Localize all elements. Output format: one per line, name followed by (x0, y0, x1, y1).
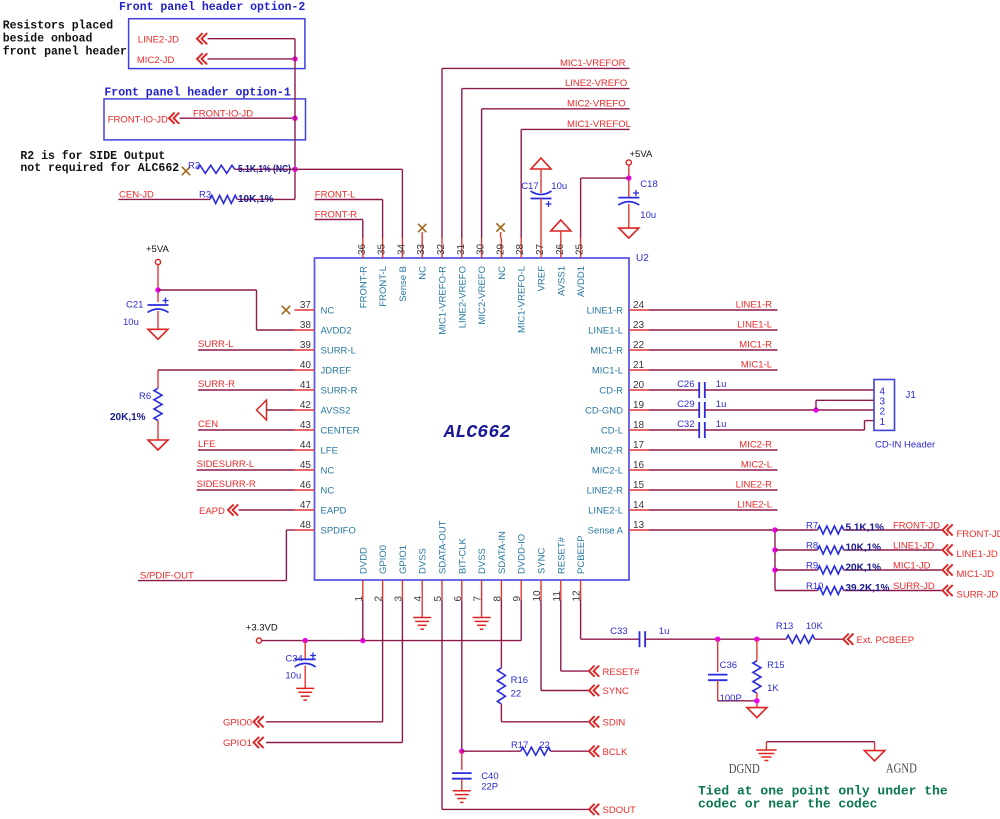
svg-text:NC: NC (418, 266, 429, 280)
svg-text:NC: NC (321, 466, 335, 477)
svg-text:MIC2-L: MIC2-L (741, 460, 772, 471)
svg-text:front panel header: front panel header (3, 46, 127, 59)
svg-text:SDATA-OUT: SDATA-OUT (438, 520, 449, 574)
svg-text:10u: 10u (285, 671, 301, 682)
svg-text:31: 31 (456, 243, 467, 255)
svg-text:5.1K,1%: 5.1K,1% (846, 522, 884, 533)
svg-text:20K,1%: 20K,1% (110, 412, 146, 423)
svg-text:21: 21 (633, 360, 645, 371)
svg-text:LINE1-L: LINE1-L (737, 320, 772, 331)
svg-text:LINE2-JD: LINE2-JD (138, 35, 179, 46)
svg-text:GPIO0: GPIO0 (223, 718, 252, 729)
svg-text:19: 19 (633, 400, 645, 411)
svg-text:MIC2-VREFO: MIC2-VREFO (567, 98, 626, 109)
svg-text:10K,1%: 10K,1% (238, 194, 274, 205)
svg-text:DGND: DGND (729, 761, 760, 776)
svg-text:42: 42 (300, 400, 312, 411)
svg-text:22: 22 (633, 340, 645, 351)
svg-text:DVDD: DVDD (358, 547, 369, 574)
svg-text:Sense B: Sense B (398, 266, 409, 302)
svg-text:SURR-L: SURR-L (321, 346, 356, 357)
svg-text:SURR-JD: SURR-JD (893, 581, 935, 592)
svg-text:MIC2-VREFO: MIC2-VREFO (477, 266, 488, 325)
svg-text:SIDESURR-L: SIDESURR-L (197, 459, 255, 470)
svg-text:LFE: LFE (198, 439, 215, 450)
svg-text:not required for ALC662: not required for ALC662 (20, 162, 179, 175)
svg-text:MIC1-R: MIC1-R (739, 340, 772, 351)
svg-text:16: 16 (633, 460, 645, 471)
svg-text:C34: C34 (285, 654, 302, 665)
svg-text:C18: C18 (640, 179, 657, 190)
svg-text:LINE1-R: LINE1-R (736, 300, 773, 311)
svg-text:EAPD: EAPD (199, 506, 225, 517)
svg-text:15: 15 (633, 480, 645, 491)
svg-text:18: 18 (633, 420, 645, 431)
svg-text:+3.3VD: +3.3VD (246, 623, 278, 634)
svg-text:R8: R8 (806, 541, 818, 552)
svg-text:ALC662: ALC662 (443, 422, 511, 443)
svg-text:41: 41 (300, 380, 312, 391)
svg-text:FRONT-R: FRONT-R (358, 266, 369, 308)
svg-text:FRONT-JD: FRONT-JD (957, 529, 1000, 540)
svg-text:MIC1-VREFO-L: MIC1-VREFO-L (517, 266, 528, 333)
svg-text:AGND: AGND (886, 761, 917, 776)
svg-text:SYNC: SYNC (603, 686, 630, 697)
svg-text:AVDD2: AVDD2 (321, 326, 352, 337)
svg-text:1u: 1u (659, 626, 670, 637)
svg-text:10u: 10u (640, 210, 656, 221)
svg-text:12: 12 (572, 590, 583, 602)
svg-text:MIC2-R: MIC2-R (590, 446, 623, 457)
svg-text:AVDD1: AVDD1 (576, 266, 587, 297)
svg-text:MIC1-VREFOR: MIC1-VREFOR (560, 58, 626, 69)
svg-text:FRONT-JD: FRONT-JD (893, 521, 940, 532)
svg-text:J1: J1 (905, 390, 916, 401)
svg-text:codec or near the codec: codec or near the codec (698, 796, 878, 811)
svg-text:CENTER: CENTER (321, 426, 360, 437)
svg-text:C33: C33 (610, 626, 627, 637)
svg-text:MIC1-L: MIC1-L (592, 366, 623, 377)
svg-text:+5VA: +5VA (146, 244, 169, 255)
svg-text:13: 13 (633, 520, 645, 531)
svg-text:45: 45 (300, 460, 312, 471)
svg-text:1K: 1K (767, 683, 779, 694)
svg-text:39.2K,1%: 39.2K,1% (846, 583, 890, 594)
svg-text:LINE2-L: LINE2-L (737, 500, 772, 511)
svg-text:BCLK: BCLK (603, 747, 628, 758)
svg-text:SURR-R: SURR-R (321, 386, 358, 397)
svg-text:35: 35 (377, 243, 388, 255)
svg-text:R13: R13 (776, 621, 793, 632)
svg-text:SDIN: SDIN (603, 718, 626, 729)
svg-text:JDREF: JDREF (321, 366, 352, 377)
svg-text:24: 24 (633, 300, 645, 311)
svg-text:C40: C40 (481, 771, 498, 782)
svg-text:MIC1-JD: MIC1-JD (893, 561, 931, 572)
svg-text:R7: R7 (806, 521, 818, 532)
svg-text:DVSS: DVSS (418, 548, 429, 574)
svg-text:Front panel header option-1: Front panel header option-1 (104, 87, 290, 100)
svg-text:SYNC: SYNC (537, 547, 548, 574)
svg-text:14: 14 (633, 500, 645, 511)
svg-text:20: 20 (633, 380, 645, 391)
svg-text:28: 28 (515, 243, 526, 255)
svg-text:44: 44 (300, 440, 312, 451)
svg-text:R9: R9 (806, 561, 818, 572)
svg-text:37: 37 (300, 300, 312, 311)
svg-text:C21: C21 (126, 300, 143, 311)
svg-text:Resistors placed: Resistors placed (3, 20, 114, 33)
svg-text:CD-L: CD-L (601, 426, 623, 437)
svg-text:LINE1-L: LINE1-L (588, 326, 623, 337)
svg-text:LFE: LFE (321, 446, 338, 457)
svg-text:PCBEEP: PCBEEP (576, 535, 587, 574)
svg-text:LINE2-R: LINE2-R (736, 480, 773, 491)
svg-text:R6: R6 (139, 391, 151, 402)
svg-text:NC: NC (321, 306, 335, 317)
svg-text:26: 26 (555, 243, 566, 255)
svg-text:R2: R2 (188, 160, 200, 171)
svg-text:FRONT-L: FRONT-L (378, 266, 389, 307)
svg-text:47: 47 (300, 500, 312, 511)
svg-text:36: 36 (357, 243, 368, 255)
svg-text:25: 25 (575, 243, 586, 255)
svg-text:39: 39 (300, 340, 312, 351)
svg-text:40: 40 (300, 360, 312, 371)
svg-text:22: 22 (511, 689, 522, 700)
svg-text:S/PDIF-OUT: S/PDIF-OUT (140, 571, 194, 582)
svg-text:FRONT-R: FRONT-R (315, 209, 357, 220)
svg-text:10u: 10u (551, 181, 567, 192)
svg-text:27: 27 (535, 243, 546, 255)
svg-text:R16: R16 (511, 675, 528, 686)
svg-text:34: 34 (396, 243, 407, 255)
svg-text:U2: U2 (636, 253, 649, 264)
svg-text:100P: 100P (720, 693, 742, 704)
svg-text:10K: 10K (806, 621, 824, 632)
svg-text:10u: 10u (123, 317, 139, 328)
svg-text:1: 1 (880, 417, 886, 428)
svg-text:R15: R15 (767, 660, 784, 671)
svg-text:LINE1-JD: LINE1-JD (957, 549, 998, 560)
svg-text:LINE1-R: LINE1-R (587, 306, 624, 317)
svg-text:FRONT-IO-JD: FRONT-IO-JD (108, 115, 168, 126)
svg-text:Ext. PCBEEP: Ext. PCBEEP (857, 635, 915, 646)
svg-text:SURR-JD: SURR-JD (957, 589, 999, 600)
svg-text:1u: 1u (716, 419, 727, 430)
svg-text:GPIO1: GPIO1 (223, 738, 252, 749)
svg-text:EAPD: EAPD (321, 506, 347, 517)
svg-text:MIC1-VREFOL: MIC1-VREFOL (567, 119, 631, 130)
svg-text:CD-R: CD-R (599, 386, 623, 397)
svg-text:MIC2-R: MIC2-R (739, 440, 772, 451)
svg-text:CD-IN Header: CD-IN Header (875, 440, 935, 451)
svg-text:AVSS2: AVSS2 (321, 406, 351, 417)
svg-text:C36: C36 (720, 660, 737, 671)
svg-text:R2 is for SIDE Output: R2 is for SIDE Output (20, 150, 165, 163)
svg-text:11: 11 (552, 591, 563, 602)
svg-text:48: 48 (300, 520, 312, 531)
svg-text:SURR-L: SURR-L (198, 339, 233, 350)
svg-text:MIC2-JD: MIC2-JD (137, 55, 175, 66)
svg-text:RESET#: RESET# (556, 536, 567, 574)
svg-text:FRONT-IO-JD: FRONT-IO-JD (193, 108, 253, 119)
svg-text:NC: NC (497, 266, 508, 280)
svg-text:C32: C32 (677, 419, 694, 430)
svg-text:SDOUT: SDOUT (603, 805, 636, 816)
svg-text:CEN-JD: CEN-JD (119, 189, 154, 200)
svg-text:NC: NC (321, 486, 335, 497)
svg-text:32: 32 (436, 243, 447, 255)
svg-text:C17: C17 (521, 181, 538, 192)
svg-text:DVSS: DVSS (477, 548, 488, 574)
svg-text:Sense A: Sense A (588, 526, 624, 537)
svg-text:CD-GND: CD-GND (585, 406, 623, 417)
svg-text:LINE1-JD: LINE1-JD (893, 541, 934, 552)
svg-text:LINE2-L: LINE2-L (588, 506, 623, 517)
svg-text:10: 10 (532, 590, 543, 602)
svg-text:MIC1-JD: MIC1-JD (957, 569, 995, 580)
svg-text:23: 23 (633, 320, 645, 331)
svg-text:MIC1-L: MIC1-L (741, 360, 772, 371)
svg-text:BIT-CLK: BIT-CLK (457, 537, 468, 574)
svg-text:GPIO0: GPIO0 (378, 545, 389, 574)
svg-text:SURR-R: SURR-R (198, 379, 235, 390)
svg-text:AVSS1: AVSS1 (556, 266, 567, 296)
svg-text:43: 43 (300, 420, 312, 431)
svg-text:30: 30 (476, 243, 487, 255)
svg-text:17: 17 (633, 440, 645, 451)
svg-text:R17: R17 (511, 740, 528, 751)
svg-text:MIC2-L: MIC2-L (592, 466, 623, 477)
svg-text:10K,1%: 10K,1% (846, 542, 882, 553)
svg-text:RESET#: RESET# (603, 667, 641, 678)
svg-text:R3: R3 (199, 189, 211, 200)
svg-text:C29: C29 (677, 399, 694, 410)
svg-text:Front panel header option-2: Front panel header option-2 (119, 1, 305, 14)
svg-text:33: 33 (416, 243, 427, 255)
svg-text:1u: 1u (716, 379, 727, 390)
svg-text:+5VA: +5VA (630, 149, 653, 160)
svg-text:LINE2-VREFO: LINE2-VREFO (565, 78, 627, 89)
svg-text:SPDIFO: SPDIFO (321, 526, 356, 537)
svg-text:22P: 22P (481, 782, 498, 793)
svg-text:MIC1-VREFO-R: MIC1-VREFO-R (438, 266, 449, 335)
svg-text:LINE2-VREFO: LINE2-VREFO (457, 266, 468, 328)
svg-text:5.1K,1% (NC): 5.1K,1% (NC) (238, 164, 291, 175)
svg-text:beside onboad: beside onboad (3, 33, 93, 46)
svg-text:38: 38 (300, 320, 312, 331)
svg-text:46: 46 (300, 480, 312, 491)
svg-text:20K,1%: 20K,1% (846, 562, 882, 573)
svg-text:C26: C26 (677, 379, 694, 390)
svg-text:1u: 1u (716, 399, 727, 410)
svg-text:VREF: VREF (537, 266, 548, 292)
svg-text:22: 22 (539, 740, 550, 751)
svg-text:CEN: CEN (198, 419, 218, 430)
svg-text:MIC1-R: MIC1-R (590, 346, 623, 357)
svg-text:LINE2-R: LINE2-R (587, 486, 624, 497)
svg-text:DVDD-IO: DVDD-IO (517, 534, 528, 574)
svg-text:FRONT-L: FRONT-L (315, 189, 356, 200)
svg-text:29: 29 (495, 243, 506, 255)
svg-text:SDATA-IN: SDATA-IN (497, 531, 508, 574)
svg-text:GPIO1: GPIO1 (398, 545, 409, 574)
svg-text:SIDESURR-R: SIDESURR-R (197, 479, 256, 490)
